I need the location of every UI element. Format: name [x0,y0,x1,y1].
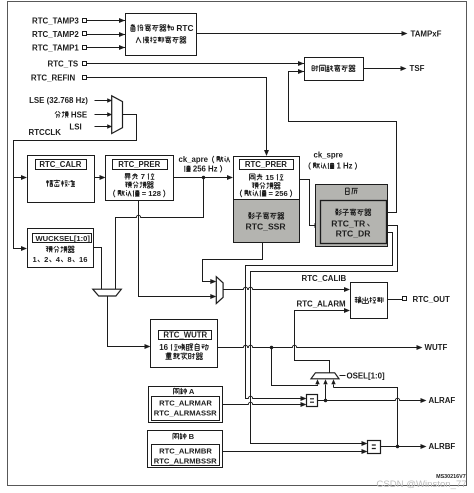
pin RTC_OUT [403,297,407,301]
wire calendar to timestamp register [289,72,397,213]
svg-text:RTC_ALRMASSR: RTC_ALRMASSR [154,408,217,417]
svg-text:8: 8 [67,255,71,264]
wire calibration to async prescaler [95,177,101,179]
wire ck_apre branch to wakeup prescaler mux [116,178,204,290]
svg-text:RTCCLK: RTCCLK [29,128,62,137]
mux: OSEL output selector [311,373,339,379]
svg-text:RTC_TAMP3: RTC_TAMP3 [32,16,79,25]
svg-text:RTC_TAMP2: RTC_TAMP2 [32,30,79,39]
wire LSE to clock mux [95,100,112,102]
comparator A (=) [307,395,318,407]
wire ALRAF output [318,398,422,400]
block: alarm A registers [149,387,223,423]
svg-text:TAMPxF: TAMPxF [411,29,442,38]
block: RTC_PRER asynchronous 7-bit prescaler [106,156,174,201]
svg-text:RTC: RTC [174,23,193,33]
wire RTC_TAMP1 to tamper block [87,47,126,49]
block: backup registers and RTC tamper control registers [126,14,197,56]
svg-text:RTC_ALARM: RTC_ALARM [297,299,347,308]
svg-text:WUTF: WUTF [425,343,448,352]
svg-text:ck_apre: ck_apre [179,155,209,164]
shadow registers RTC_TR RTC_DR [321,201,387,244]
svg-text:RTC_REFIN: RTC_REFIN [31,74,76,83]
mux: wakeup timer clock selector [216,277,223,304]
svg-text:= 128: = 128 [140,189,161,198]
wire RTCCLK net [14,115,137,249]
wire ck_apre async to sync prescaler [174,177,228,179]
wire WUCKSEL output to wakeup prescaler mux [94,248,102,290]
svg-text:RTC_TAMP1: RTC_TAMP1 [32,43,79,52]
wire ck_spre sync prescaler to calendar [300,180,316,226]
svg-text:RTC_ALRMBR: RTC_ALRMBR [159,446,212,455]
svg-text:= 256: = 256 [266,189,287,198]
block: alarm B registers [148,431,223,468]
wire alarm A registers to comparator [223,402,302,404]
wire HSE to clock mux [95,114,112,116]
svg-text:RTC_PRER: RTC_PRER [118,160,160,169]
block: RTC_PRER synchronous 15-bit prescaler [234,157,300,200]
svg-text:ALRBF: ALRBF [429,442,456,451]
svg-text:ck_spre: ck_spre [314,151,344,160]
shadow register RTC_SSR section [234,200,300,243]
svg-text:RTC_CALR: RTC_CALR [39,160,81,169]
svg-text:OSEL[1:0]: OSEL[1:0] [347,371,386,380]
svg-text:RTC_TS: RTC_TS [48,59,79,68]
wire wakeup prescaler mux output to RTC_WUTR [108,297,146,347]
svg-text:16: 16 [159,343,170,352]
svg-text:7: 7 [139,172,147,181]
svg-text:RTC_TR: RTC_TR [331,218,366,228]
svg-text:256 Hz: 256 Hz [191,165,218,174]
svg-text:RTC_SSR: RTC_SSR [246,222,287,232]
wire TAMPxF output [197,33,403,35]
wire WUTF output [218,345,418,347]
block: output control [351,283,388,319]
svg-text:RTC_ALRMBSSR: RTC_ALRMBSSR [154,456,217,465]
svg-text:B: B [187,432,195,441]
svg-text:WUCKSEL[1:0]: WUCKSEL[1:0] [36,234,91,243]
comparator B (=) [368,441,381,454]
svg-text:RTC_CALIB: RTC_CALIB [302,274,347,283]
block: RTC_WUTR 16-bit wakeup auto-reload timer [151,320,218,368]
wire RTC_TAMP2 to tamper block [87,34,126,36]
svg-text:CSDN @Winston_77: CSDN @Winston_77 [376,479,466,490]
wire RTC_REFIN to synchronous prescaler [87,78,267,151]
svg-text:16: 16 [79,255,87,264]
svg-text:RTC_WUTR: RTC_WUTR [163,331,207,340]
wire async prescaler divided outputs to wakeup timer mux [139,201,211,297]
svg-text:15: 15 [263,173,276,182]
wire WUTF branch to OSEL mux [272,348,318,386]
wire RTCCLK branch to calibration [14,177,22,179]
wire RTC_CALIB to output control [224,287,345,289]
wire ALRBF branch to OSEL mux [334,388,398,447]
wire RTC_TAMP3 to tamper block [87,20,126,22]
block: timestamp register [305,58,364,81]
wire ALRBF output [381,446,422,448]
svg-text:RTC_PRER: RTC_PRER [245,160,287,169]
wire calendar to alarm B comparator [251,226,398,444]
mux: RTCCLK clock source selector [112,96,123,134]
wire RTC_OUT [388,299,403,301]
block: WUCKSEL wakeup prescaler [28,229,94,268]
svg-text:RTC_ALRMAR: RTC_ALRMAR [159,398,212,407]
block U: RTC_CALR smooth calibration [28,156,95,203]
wire ck_spre to wakeup timer mux [203,243,263,282]
svg-text:ALRAF: ALRAF [429,396,456,405]
label OSEL[1:0] [340,375,346,377]
svg-text:2: 2 [44,255,48,264]
wire ALRAF branch to OSEL mux [325,385,327,401]
svg-text:LSI: LSI [69,123,81,132]
block: calendar [316,185,388,247]
wire LSI to clock mux [95,126,112,128]
svg-text:A: A [187,387,195,396]
wire calendar to alarm A comparator [246,233,393,399]
svg-text:1 Hz: 1 Hz [334,162,352,171]
svg-text:LSE (32.768 Hz): LSE (32.768 Hz) [29,96,88,105]
svg-text:TSF: TSF [410,64,425,73]
mux: wakeup prescaler selector [93,289,122,296]
svg-text:RTC_OUT: RTC_OUT [413,295,450,304]
label HSE [55,111,60,117]
svg-text:RTC_DR: RTC_DR [336,229,372,239]
wire TSF output [364,68,402,70]
wire alarm B registers to comparator [223,451,363,453]
wire RTC_TS to timestamp register [87,63,305,65]
svg-text:HSE: HSE [69,110,87,119]
wire RTC_ALARM to output control [295,311,345,373]
